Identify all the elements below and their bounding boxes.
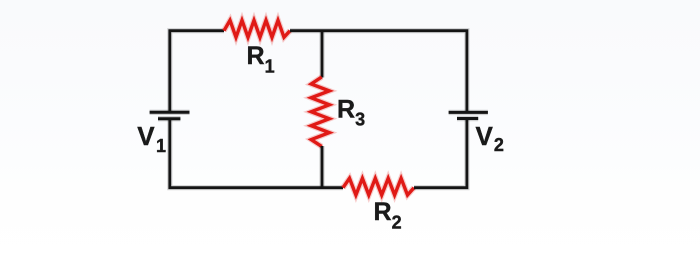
wire middle branch from R3 bottom lead down to bottom junction node C <box>319 146 324 188</box>
svg-text:V2: V2 <box>476 121 504 155</box>
wire from V1 negative terminal down and across bottom to R2 left lead (node C junction) <box>170 119 343 188</box>
battery V2 <box>449 112 488 118</box>
wire from R1 right lead through top junction node B across and down to V2 positive terminal <box>290 31 467 112</box>
resistor R3 <box>311 77 329 147</box>
svg-text:R1: R1 <box>247 42 275 76</box>
wire from R2 right lead across and up to V2 negative terminal <box>414 119 467 188</box>
wire from V1 positive terminal up and across to R1 left lead (node A) <box>170 31 224 112</box>
battery V1 <box>150 112 190 118</box>
resistor R1 <box>224 20 290 37</box>
wire middle branch from top junction node B down to R3 top lead <box>319 31 324 78</box>
svg-text:R3: R3 <box>337 95 365 129</box>
svg-text:R2: R2 <box>374 198 402 232</box>
resistor R2 <box>343 178 414 195</box>
svg-text:V1: V1 <box>137 121 166 156</box>
